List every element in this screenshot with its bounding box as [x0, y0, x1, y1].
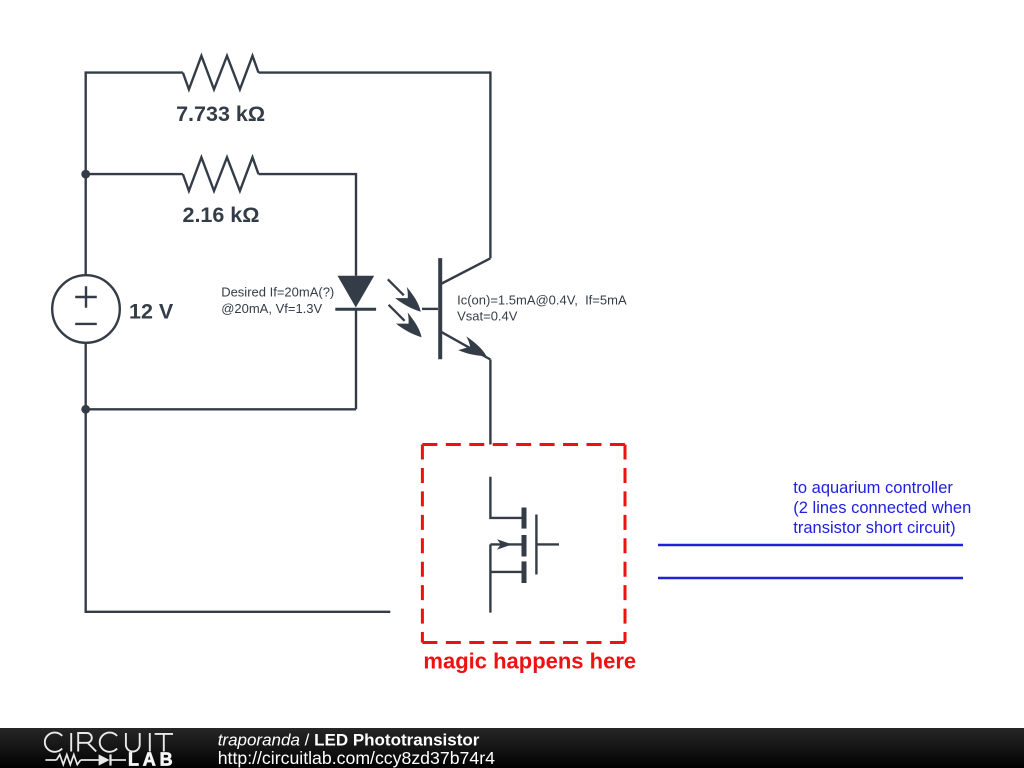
junction dot A	[81, 170, 90, 179]
resistor R2	[183, 157, 259, 191]
svg-text:2.16 kΩ: 2.16 kΩ	[182, 203, 259, 227]
mosfet M1 drain	[490, 477, 524, 518]
V1 minus sign	[75, 323, 97, 325]
wire top to collector	[259, 73, 491, 259]
logo diode triangle	[99, 754, 110, 765]
V1 plus sign	[75, 286, 97, 307]
light arrow 1 shaft	[388, 279, 404, 295]
M1 channel bar mid	[522, 535, 527, 557]
svg-text:12 V: 12 V	[129, 300, 174, 324]
M1 body lead	[490, 543, 521, 545]
footer bar	[0, 728, 1024, 768]
M1 gate bar	[535, 515, 537, 575]
svg-text:7.733 kΩ: 7.733 kΩ	[176, 102, 265, 126]
svg-text:Vsat=0.4V: Vsat=0.4V	[457, 308, 518, 323]
M1 body arrow head	[497, 539, 512, 549]
LED D1 triangle	[338, 276, 375, 308]
Q1 emitter arrow head	[458, 336, 490, 364]
Q1 base stub	[422, 308, 438, 310]
M1 source lead	[490, 571, 524, 573]
LED D1 cathode bar	[335, 308, 376, 311]
svg-text:LAB: LAB	[128, 750, 176, 768]
M1 channel bar top	[522, 508, 527, 529]
blue wire 1	[658, 544, 963, 547]
LED cathode wire	[355, 311, 357, 410]
Q1 collector diagonal	[441, 258, 491, 284]
svg-text:(2 lines connected when: (2 lines connected when	[793, 499, 971, 517]
svg-text:magic happens here: magic happens here	[423, 648, 636, 673]
wire source bottom	[86, 343, 391, 612]
wire mid-bottom	[86, 408, 356, 410]
phototransistor Q1 base bar	[438, 258, 442, 359]
resistor R1	[183, 56, 259, 90]
Q1 emitter wire down	[489, 360, 491, 445]
light arrow 2 shaft	[389, 305, 405, 321]
svg-text:@20mA, Vf=1.3V: @20mA, Vf=1.3V	[221, 301, 322, 316]
svg-text:http://circuitlab.com/ccy8zd37: http://circuitlab.com/ccy8zd37b74r4	[218, 748, 495, 768]
dashed highlight box	[422, 445, 625, 643]
svg-text:Desired If=20mA(?): Desired If=20mA(?)	[221, 285, 334, 300]
wire top-left vertical	[86, 73, 183, 275]
svg-text:transistor short circuit): transistor short circuit)	[793, 519, 955, 537]
wire mid from junction	[86, 173, 183, 175]
light arrow 2 head	[396, 312, 427, 343]
voltage source V1	[52, 275, 120, 343]
logo CIRCUIT letters	[45, 733, 173, 752]
svg-text:Ic(on)=1.5mA@0.4V, If=5mA: Ic(on)=1.5mA@0.4V, If=5mA	[457, 292, 627, 307]
wire mid to LED anode	[259, 174, 357, 276]
blue wire 2	[658, 577, 963, 580]
svg-text:to aquarium controller: to aquarium controller	[793, 479, 953, 497]
light arrow 1 head	[395, 287, 426, 318]
M1 channel bar bottom	[522, 561, 527, 583]
svg-text:traporanda / LED Phototransist: traporanda / LED Phototransistor	[218, 731, 480, 750]
M1 source wire down	[489, 544, 491, 612]
junction dot B	[81, 405, 90, 414]
Q1 emitter diagonal	[441, 332, 491, 360]
M1 gate lead	[536, 543, 559, 545]
logo squiggle resistor-diode	[45, 754, 126, 765]
